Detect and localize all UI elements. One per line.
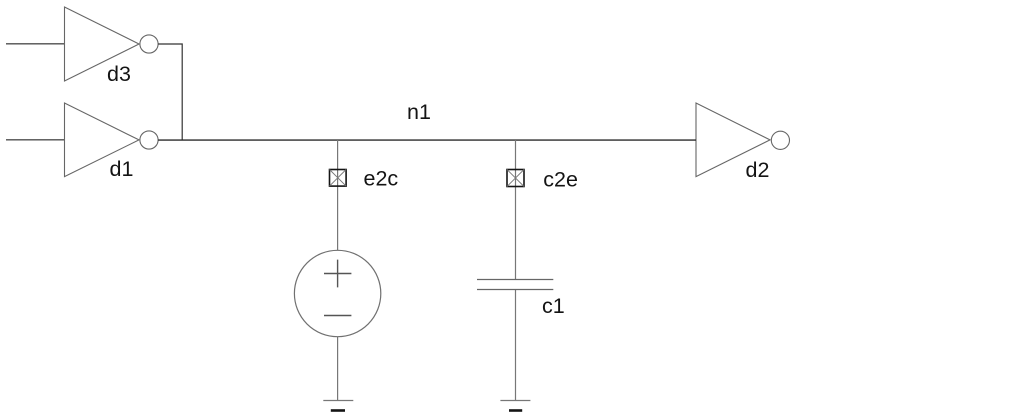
svg-text:c2e: c2e (543, 167, 578, 191)
svg-text:n1: n1 (407, 100, 431, 124)
svg-text:c1: c1 (542, 294, 565, 318)
svg-text:d2: d2 (746, 158, 770, 182)
svg-text:d1: d1 (110, 157, 134, 181)
svg-text:e2c: e2c (364, 166, 399, 190)
svg-text:d3: d3 (107, 62, 131, 86)
